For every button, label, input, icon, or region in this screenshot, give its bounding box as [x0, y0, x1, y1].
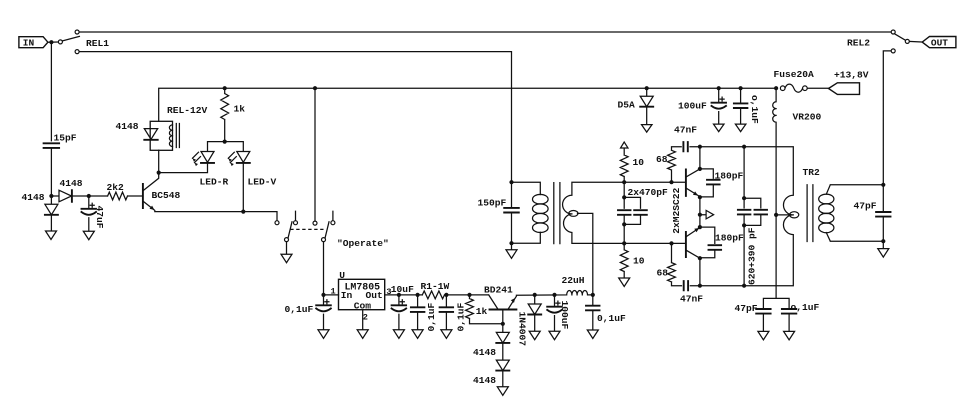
- svg-text:47pF: 47pF: [854, 200, 877, 211]
- svg-text:4148: 4148: [116, 121, 139, 132]
- svg-text:"Operate": "Operate": [337, 238, 389, 249]
- svg-text:4148: 4148: [22, 192, 45, 203]
- svg-text:22uH: 22uH: [562, 275, 585, 286]
- svg-text:4148: 4148: [60, 178, 83, 189]
- svg-text:10: 10: [633, 255, 645, 266]
- svg-text:0,1uF: 0,1uF: [456, 302, 467, 331]
- svg-text:68: 68: [656, 154, 668, 165]
- svg-text:OUT: OUT: [931, 38, 948, 49]
- svg-text:68: 68: [657, 267, 669, 278]
- svg-text:1k: 1k: [234, 103, 246, 114]
- svg-text:180pF: 180pF: [715, 170, 744, 181]
- svg-text:15pF: 15pF: [54, 132, 77, 143]
- svg-text:BD241: BD241: [484, 285, 513, 296]
- svg-text:o,1uF: o,1uF: [749, 95, 760, 124]
- svg-text:REL2: REL2: [847, 37, 870, 48]
- svg-text:R1-1W: R1-1W: [421, 281, 450, 292]
- svg-text:4148: 4148: [473, 375, 496, 386]
- svg-text:4148: 4148: [473, 347, 496, 358]
- svg-text:2: 2: [363, 312, 368, 322]
- svg-text:620+390 pF: 620+390 pF: [746, 227, 757, 285]
- svg-text:REL1: REL1: [86, 38, 109, 49]
- svg-text:D5A: D5A: [618, 99, 636, 110]
- svg-text:o,1uF: o,1uF: [791, 302, 820, 313]
- svg-text:47pF: 47pF: [735, 303, 758, 314]
- svg-text:100uF: 100uF: [678, 100, 707, 111]
- svg-text:47nF: 47nF: [680, 293, 703, 304]
- svg-text:2xM2SC22: 2xM2SC22: [671, 187, 682, 233]
- svg-text:IN: IN: [23, 38, 35, 49]
- svg-text:1k: 1k: [476, 306, 488, 317]
- svg-text:VR200: VR200: [793, 111, 822, 122]
- svg-text:10: 10: [633, 157, 645, 168]
- svg-text:REL-12V: REL-12V: [167, 105, 208, 116]
- svg-text:47nF: 47nF: [674, 124, 697, 135]
- svg-text:10uF: 10uF: [391, 284, 414, 295]
- svg-text:LED-V: LED-V: [248, 176, 277, 187]
- svg-text:0,1uF: 0,1uF: [597, 313, 626, 324]
- svg-text:TR2: TR2: [803, 167, 821, 178]
- svg-text:0,1uF: 0,1uF: [285, 304, 314, 315]
- svg-text:1N4007: 1N4007: [516, 312, 527, 347]
- svg-text:180pF: 180pF: [715, 232, 744, 243]
- svg-text:0,1uF: 0,1uF: [426, 302, 437, 331]
- svg-text:100uF: 100uF: [559, 301, 570, 330]
- svg-text:Com: Com: [354, 301, 372, 312]
- svg-text:Out: Out: [366, 290, 383, 301]
- svg-text:150pF: 150pF: [478, 197, 507, 208]
- svg-text:BC548: BC548: [152, 190, 181, 201]
- svg-text:In: In: [341, 290, 353, 301]
- svg-text:2x470pF: 2x470pF: [628, 187, 669, 198]
- svg-text:2k2: 2k2: [107, 182, 125, 193]
- svg-text:+13,8V: +13,8V: [834, 69, 869, 80]
- svg-text:LED-R: LED-R: [200, 176, 229, 187]
- svg-text:1: 1: [331, 286, 336, 296]
- svg-text:U: U: [339, 270, 345, 281]
- svg-text:Fuse20A: Fuse20A: [774, 69, 815, 80]
- svg-text:47uF: 47uF: [94, 206, 105, 229]
